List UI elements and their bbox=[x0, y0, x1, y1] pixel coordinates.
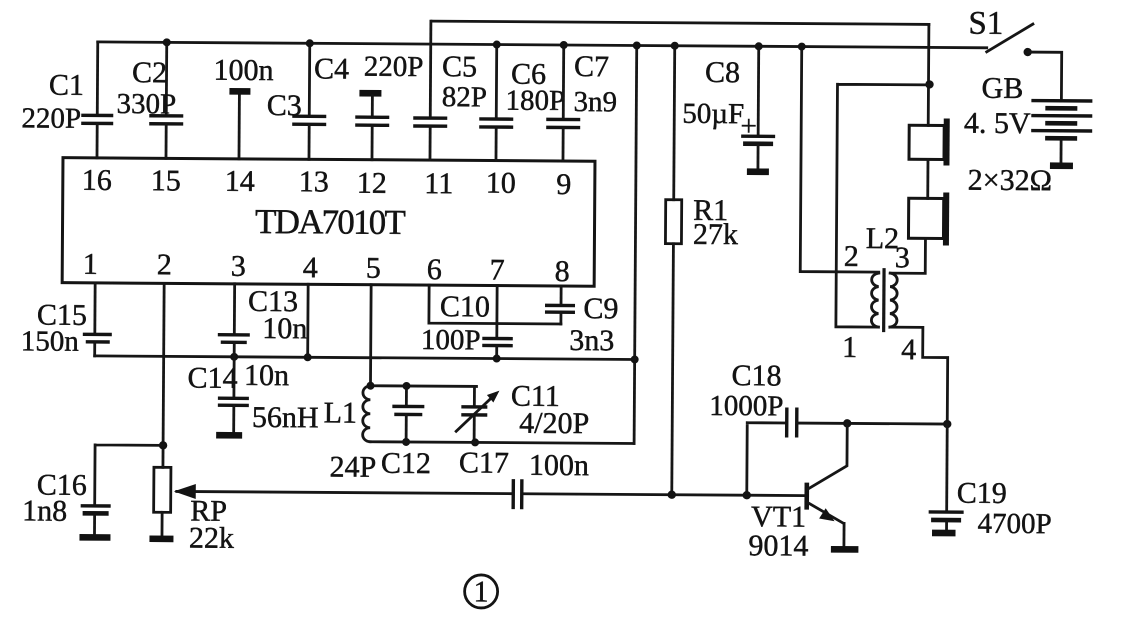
svg-text:C4: C4 bbox=[314, 52, 349, 85]
svg-text:C12: C12 bbox=[381, 447, 431, 480]
IC U1 TDA7010T body bbox=[62, 158, 595, 287]
wire audio line RP wiper to VT1 base bbox=[177, 491, 805, 495]
capacitor C16 bbox=[22, 444, 163, 535]
svg-text:10n: 10n bbox=[262, 312, 307, 345]
svg-text:C14: C14 bbox=[187, 362, 237, 395]
svg-text:C9: C9 bbox=[583, 292, 618, 325]
capacitor C17 series bbox=[459, 446, 589, 509]
wire tank bottom bbox=[370, 442, 634, 444]
capacitor C6 bbox=[479, 44, 566, 161]
svg-text:S1: S1 bbox=[968, 6, 1003, 42]
svg-text:2: 2 bbox=[157, 248, 172, 281]
svg-text:3: 3 bbox=[895, 241, 910, 274]
capacitor C2 bbox=[116, 42, 184, 158]
ground RP bbox=[149, 535, 173, 542]
capacitor C12 bbox=[329, 385, 431, 484]
capacitor C4 bbox=[313, 50, 423, 160]
capacitor C18 bbox=[709, 359, 948, 497]
ground C19 bbox=[932, 530, 955, 537]
svg-text:5: 5 bbox=[366, 252, 381, 285]
capacitor C13 bbox=[218, 284, 308, 358]
svg-text:C7: C7 bbox=[574, 50, 609, 83]
ground C16 bbox=[79, 534, 110, 541]
svg-text:22k: 22k bbox=[189, 522, 234, 555]
svg-text:4: 4 bbox=[303, 251, 318, 284]
svg-text:100n: 100n bbox=[529, 449, 589, 482]
svg-text:L1: L1 bbox=[324, 396, 358, 429]
svg-text:7: 7 bbox=[490, 254, 505, 287]
svg-text:C3: C3 bbox=[267, 89, 302, 122]
inductor L1 56nH bbox=[252, 385, 371, 442]
svg-text:C18: C18 bbox=[731, 359, 781, 392]
svg-text:220P: 220P bbox=[21, 102, 81, 134]
svg-text:10n: 10n bbox=[244, 359, 289, 392]
svg-text:C8: C8 bbox=[705, 56, 740, 89]
svg-text:24P: 24P bbox=[329, 450, 376, 483]
wire pin4 stub bbox=[306, 284, 309, 357]
svg-text:1: 1 bbox=[842, 331, 857, 364]
node junction R1/audio line bbox=[668, 490, 676, 498]
node junction C11/tank bottom bbox=[471, 438, 479, 446]
wire top supply rail bbox=[98, 42, 987, 48]
svg-text:8: 8 bbox=[555, 255, 570, 288]
capacitor C7 bbox=[546, 45, 618, 161]
ground C14 bbox=[216, 432, 242, 439]
wire L2 pin1 link bbox=[836, 84, 929, 327]
svg-text:4. 5V: 4. 5V bbox=[964, 107, 1031, 140]
svg-text:16: 16 bbox=[82, 164, 112, 197]
speaker BL1 bbox=[909, 118, 950, 165]
wire pin6 to C9 bbox=[429, 285, 561, 324]
node junction C7/rail bbox=[560, 41, 568, 49]
wire speaker to L2 pin3 bbox=[890, 238, 925, 273]
svg-text:1: 1 bbox=[83, 248, 98, 281]
wire between speakers bbox=[926, 159, 929, 198]
svg-text:C1: C1 bbox=[49, 69, 84, 102]
wire tank top bbox=[370, 384, 476, 388]
node switch pole bbox=[1023, 48, 1031, 56]
wire mid common rail bbox=[95, 356, 635, 360]
transistor VT1 9014 bbox=[748, 423, 847, 563]
capacitor C9 bbox=[545, 286, 619, 357]
wire upper rail pin11 to speaker branch bbox=[432, 21, 929, 24]
svg-text:4: 4 bbox=[901, 333, 916, 366]
wire pin5 to tank bbox=[369, 285, 372, 386]
svg-text:TDA7010T: TDA7010T bbox=[255, 202, 406, 242]
svg-text:180P: 180P bbox=[505, 85, 565, 117]
wire upper rail drop to speakers bbox=[927, 24, 930, 125]
node junction R1/rail bbox=[671, 42, 679, 50]
capacitor C19 bbox=[928, 424, 1052, 540]
svg-text:GB: GB bbox=[982, 72, 1024, 105]
capacitor C8 electrolytic bbox=[682, 46, 776, 169]
figure number 1 bbox=[465, 575, 498, 609]
svg-text:3n3: 3n3 bbox=[569, 324, 614, 357]
node junction L2feed/rail bbox=[798, 43, 806, 51]
capacitor C3 bbox=[266, 43, 326, 159]
node junction C13/mid rail bbox=[230, 353, 238, 361]
node junction C2/rail bbox=[163, 38, 171, 46]
node junction C18/C19 bbox=[943, 420, 951, 428]
capacitor C15 bbox=[21, 282, 112, 358]
svg-text:27k: 27k bbox=[693, 218, 738, 251]
svg-text:3n9: 3n9 bbox=[574, 86, 618, 118]
svg-text:14: 14 bbox=[225, 165, 255, 198]
svg-text:150n: 150n bbox=[21, 325, 80, 357]
wire switch to battery bbox=[1027, 52, 1061, 100]
svg-text:4700P: 4700P bbox=[977, 508, 1051, 540]
speaker BL2 bbox=[908, 192, 949, 245]
svg-text:11: 11 bbox=[424, 167, 453, 200]
svg-text:4/20P: 4/20P bbox=[519, 407, 589, 440]
svg-text:1n8: 1n8 bbox=[22, 494, 67, 527]
svg-text:82P: 82P bbox=[442, 81, 487, 113]
ground C8 bbox=[747, 168, 769, 175]
svg-text:50µF: 50µF bbox=[682, 98, 744, 130]
svg-text:2: 2 bbox=[844, 240, 859, 273]
svg-text:100n: 100n bbox=[213, 54, 273, 87]
svg-text:C5: C5 bbox=[442, 50, 477, 83]
svg-text:C2: C2 bbox=[132, 56, 167, 89]
node junction C12/tank bottom bbox=[402, 438, 410, 446]
node junction vertical/mid rail bbox=[631, 355, 639, 363]
svg-text:C19: C19 bbox=[957, 477, 1007, 510]
node junction C8/rail bbox=[755, 42, 763, 50]
svg-text:100P: 100P bbox=[421, 324, 481, 356]
node junction C6/rail bbox=[493, 41, 501, 49]
svg-text:12: 12 bbox=[357, 167, 387, 200]
svg-text:1000P: 1000P bbox=[709, 390, 783, 422]
svg-text:9: 9 bbox=[556, 168, 571, 201]
wire ground-net vertical rail to tank bbox=[634, 45, 637, 443]
svg-text:C10: C10 bbox=[440, 290, 490, 323]
svg-text:1: 1 bbox=[474, 575, 489, 608]
node junction pin5/tank bbox=[366, 382, 374, 390]
wire L2 pin2 feed bbox=[800, 47, 880, 273]
node junction pin4/mid rail bbox=[304, 353, 312, 361]
node junction speaker top bbox=[925, 80, 933, 88]
svg-text:9014: 9014 bbox=[748, 529, 808, 562]
svg-text:330P: 330P bbox=[116, 88, 176, 120]
node junction C18/audio line bbox=[743, 491, 751, 499]
ground VT1 emitter bbox=[831, 546, 858, 553]
capacitor C10 bbox=[421, 285, 513, 359]
capacitor 100n stub at pin 14 bbox=[213, 54, 274, 159]
node junction C3/rail bbox=[306, 39, 314, 47]
node junction RP/C16 bbox=[159, 441, 167, 449]
transformer L2 bbox=[842, 222, 917, 366]
node junction C12/tank top bbox=[402, 382, 410, 390]
node junction C18/collector bbox=[843, 419, 851, 427]
capacitor C11 variable bbox=[456, 379, 589, 443]
capacitor C5 bbox=[413, 21, 487, 160]
node junction rail/vertical bbox=[633, 41, 641, 49]
svg-text:10: 10 bbox=[486, 166, 516, 199]
node junction C10/mid rail bbox=[493, 355, 501, 363]
resistor R1 bbox=[664, 46, 739, 495]
switch S1 bbox=[968, 6, 1033, 52]
capacitor C14 bbox=[187, 357, 289, 433]
svg-text:56nH: 56nH bbox=[252, 401, 319, 434]
ground battery bbox=[1050, 162, 1073, 169]
svg-text:2×32Ω: 2×32Ω bbox=[968, 164, 1052, 198]
svg-text:6: 6 bbox=[427, 253, 442, 286]
svg-text:13: 13 bbox=[299, 165, 329, 198]
svg-text:220P: 220P bbox=[364, 51, 424, 83]
svg-text:3: 3 bbox=[231, 250, 246, 283]
svg-text:15: 15 bbox=[151, 164, 181, 197]
battery GB 4.5V bbox=[963, 72, 1092, 198]
wire L2 pin4 to C19 node bbox=[889, 327, 948, 424]
svg-text:C17: C17 bbox=[459, 446, 509, 479]
capacitor C1 bbox=[21, 41, 114, 158]
potentiometer RP 22k bbox=[153, 283, 235, 555]
